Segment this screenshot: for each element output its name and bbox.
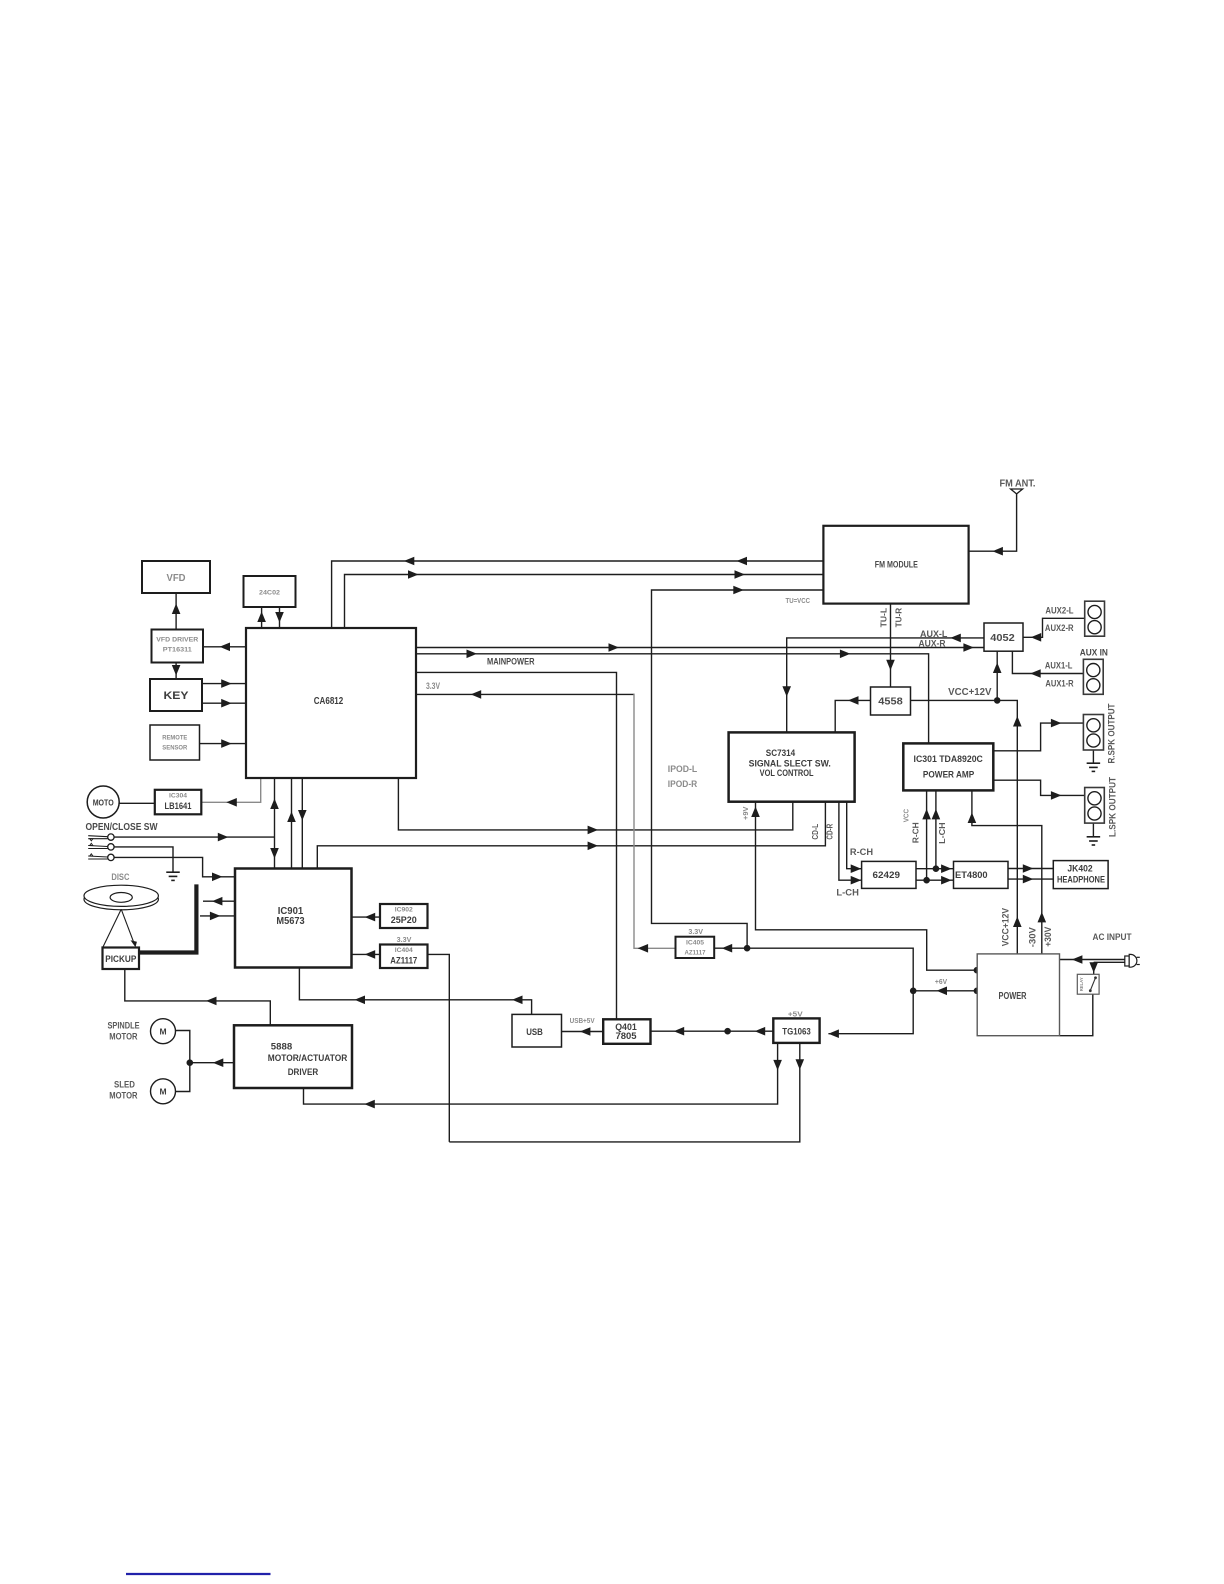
svg-text:L.SPK OUTPUT: L.SPK OUTPUT xyxy=(1107,777,1118,837)
svg-text:AUX1-R: AUX1-R xyxy=(1045,678,1074,688)
svg-text:TG1063: TG1063 xyxy=(782,1027,810,1038)
svg-text:5888: 5888 xyxy=(271,1042,292,1053)
svg-text:HEADPHONE: HEADPHONE xyxy=(1057,874,1105,884)
svg-text:VFD DRIVER: VFD DRIVER xyxy=(156,637,198,644)
svg-text:3.3V: 3.3V xyxy=(397,937,412,944)
svg-text:24C02: 24C02 xyxy=(259,590,280,597)
svg-text:FM ANT.: FM ANT. xyxy=(1000,478,1036,489)
svg-text:25P20: 25P20 xyxy=(391,915,417,925)
svg-text:M: M xyxy=(159,1026,166,1036)
svg-text:ET4800: ET4800 xyxy=(955,870,988,881)
svg-text:L-CH: L-CH xyxy=(836,888,859,898)
svg-text:DISC: DISC xyxy=(111,872,129,883)
svg-text:CA6812: CA6812 xyxy=(314,696,344,707)
svg-text:PICKUP: PICKUP xyxy=(105,954,136,964)
svg-text:AZ1117: AZ1117 xyxy=(390,956,417,966)
svg-text:SLED: SLED xyxy=(114,1079,135,1090)
svg-text:RELAY: RELAY xyxy=(1079,977,1085,992)
svg-text:REMOTE: REMOTE xyxy=(162,735,187,742)
svg-text:TU-R: TU-R xyxy=(894,608,904,628)
svg-text:SC7314: SC7314 xyxy=(766,748,795,758)
svg-text:+6V: +6V xyxy=(935,979,948,986)
svg-text:POWER: POWER xyxy=(999,991,1028,1002)
svg-text:IPOD-L: IPOD-L xyxy=(668,764,698,774)
svg-text:TU=VCC: TU=VCC xyxy=(786,598,811,605)
svg-text:PT16311: PT16311 xyxy=(163,647,192,654)
svg-text:AZ1117: AZ1117 xyxy=(685,949,706,956)
svg-text:IPOD-R: IPOD-R xyxy=(668,779,698,789)
svg-text:MOTOR: MOTOR xyxy=(109,1032,137,1043)
svg-text:AUX-R: AUX-R xyxy=(919,638,946,648)
svg-text:USB: USB xyxy=(526,1027,543,1038)
svg-text:IC405: IC405 xyxy=(686,939,704,946)
svg-text:IC404: IC404 xyxy=(395,947,413,954)
svg-text:MOTOR/ACTUATOR: MOTOR/ACTUATOR xyxy=(268,1053,348,1064)
svg-text:SENSOR: SENSOR xyxy=(162,745,187,752)
svg-text:R.SPK OUTPUT: R.SPK OUTPUT xyxy=(1107,703,1118,763)
svg-text:AUX IN: AUX IN xyxy=(1080,648,1108,659)
svg-text:AUX2-R: AUX2-R xyxy=(1045,623,1074,633)
svg-text:3.3V: 3.3V xyxy=(426,681,440,691)
svg-text:IC304: IC304 xyxy=(169,793,187,800)
svg-text:VCC+12V: VCC+12V xyxy=(1001,907,1012,946)
svg-text:M: M xyxy=(159,1086,166,1096)
svg-text:-30V: -30V xyxy=(1028,926,1039,947)
svg-text:DRIVER: DRIVER xyxy=(288,1067,319,1078)
svg-text:VFD: VFD xyxy=(167,573,186,584)
svg-text:VCC: VCC xyxy=(904,809,911,822)
svg-text:IC301 TDA8920C: IC301 TDA8920C xyxy=(914,754,984,764)
svg-text:MOTOR: MOTOR xyxy=(109,1091,137,1102)
svg-text:L-CH: L-CH xyxy=(937,822,947,844)
svg-text:VCC+12V: VCC+12V xyxy=(948,687,992,698)
svg-text:KEY: KEY xyxy=(164,690,190,702)
svg-text:+9V: +9V xyxy=(743,806,750,820)
svg-text:R-CH: R-CH xyxy=(850,847,873,857)
svg-text:VOL CONTROL: VOL CONTROL xyxy=(760,768,814,778)
svg-text:JK402: JK402 xyxy=(1067,864,1092,874)
svg-text:OPEN/CLOSE SW: OPEN/CLOSE SW xyxy=(86,822,158,833)
svg-text:LB1641: LB1641 xyxy=(165,801,192,811)
svg-text:SPINDLE: SPINDLE xyxy=(107,1021,139,1032)
svg-text:MAINPOWER: MAINPOWER xyxy=(487,657,535,668)
svg-text:CD-L: CD-L xyxy=(810,824,820,840)
svg-text:SIGNAL SLECT SW.: SIGNAL SLECT SW. xyxy=(749,758,831,768)
svg-text:M5673: M5673 xyxy=(276,916,305,927)
svg-text:7805: 7805 xyxy=(615,1031,637,1042)
svg-text:AC INPUT: AC INPUT xyxy=(1093,932,1132,943)
svg-text:4558: 4558 xyxy=(878,697,903,708)
svg-text:FM MODULE: FM MODULE xyxy=(875,559,918,570)
svg-text:CD-R: CD-R xyxy=(825,824,835,840)
svg-text:3.3V: 3.3V xyxy=(688,929,703,936)
svg-text:POWER AMP: POWER AMP xyxy=(923,770,974,780)
svg-text:+30V: +30V xyxy=(1043,926,1054,947)
svg-text:AUX1-L: AUX1-L xyxy=(1045,661,1073,671)
svg-text:R-CH: R-CH xyxy=(911,822,921,843)
svg-text:TU-L: TU-L xyxy=(879,608,889,628)
svg-text:MOTO: MOTO xyxy=(93,797,114,807)
svg-text:+5V: +5V xyxy=(788,1012,803,1019)
svg-text:AUX2-L: AUX2-L xyxy=(1045,605,1074,615)
svg-text:62429: 62429 xyxy=(873,870,901,881)
svg-text:USB+5V: USB+5V xyxy=(570,1018,595,1025)
svg-text:IC902: IC902 xyxy=(395,907,413,914)
svg-text:4052: 4052 xyxy=(990,633,1015,644)
